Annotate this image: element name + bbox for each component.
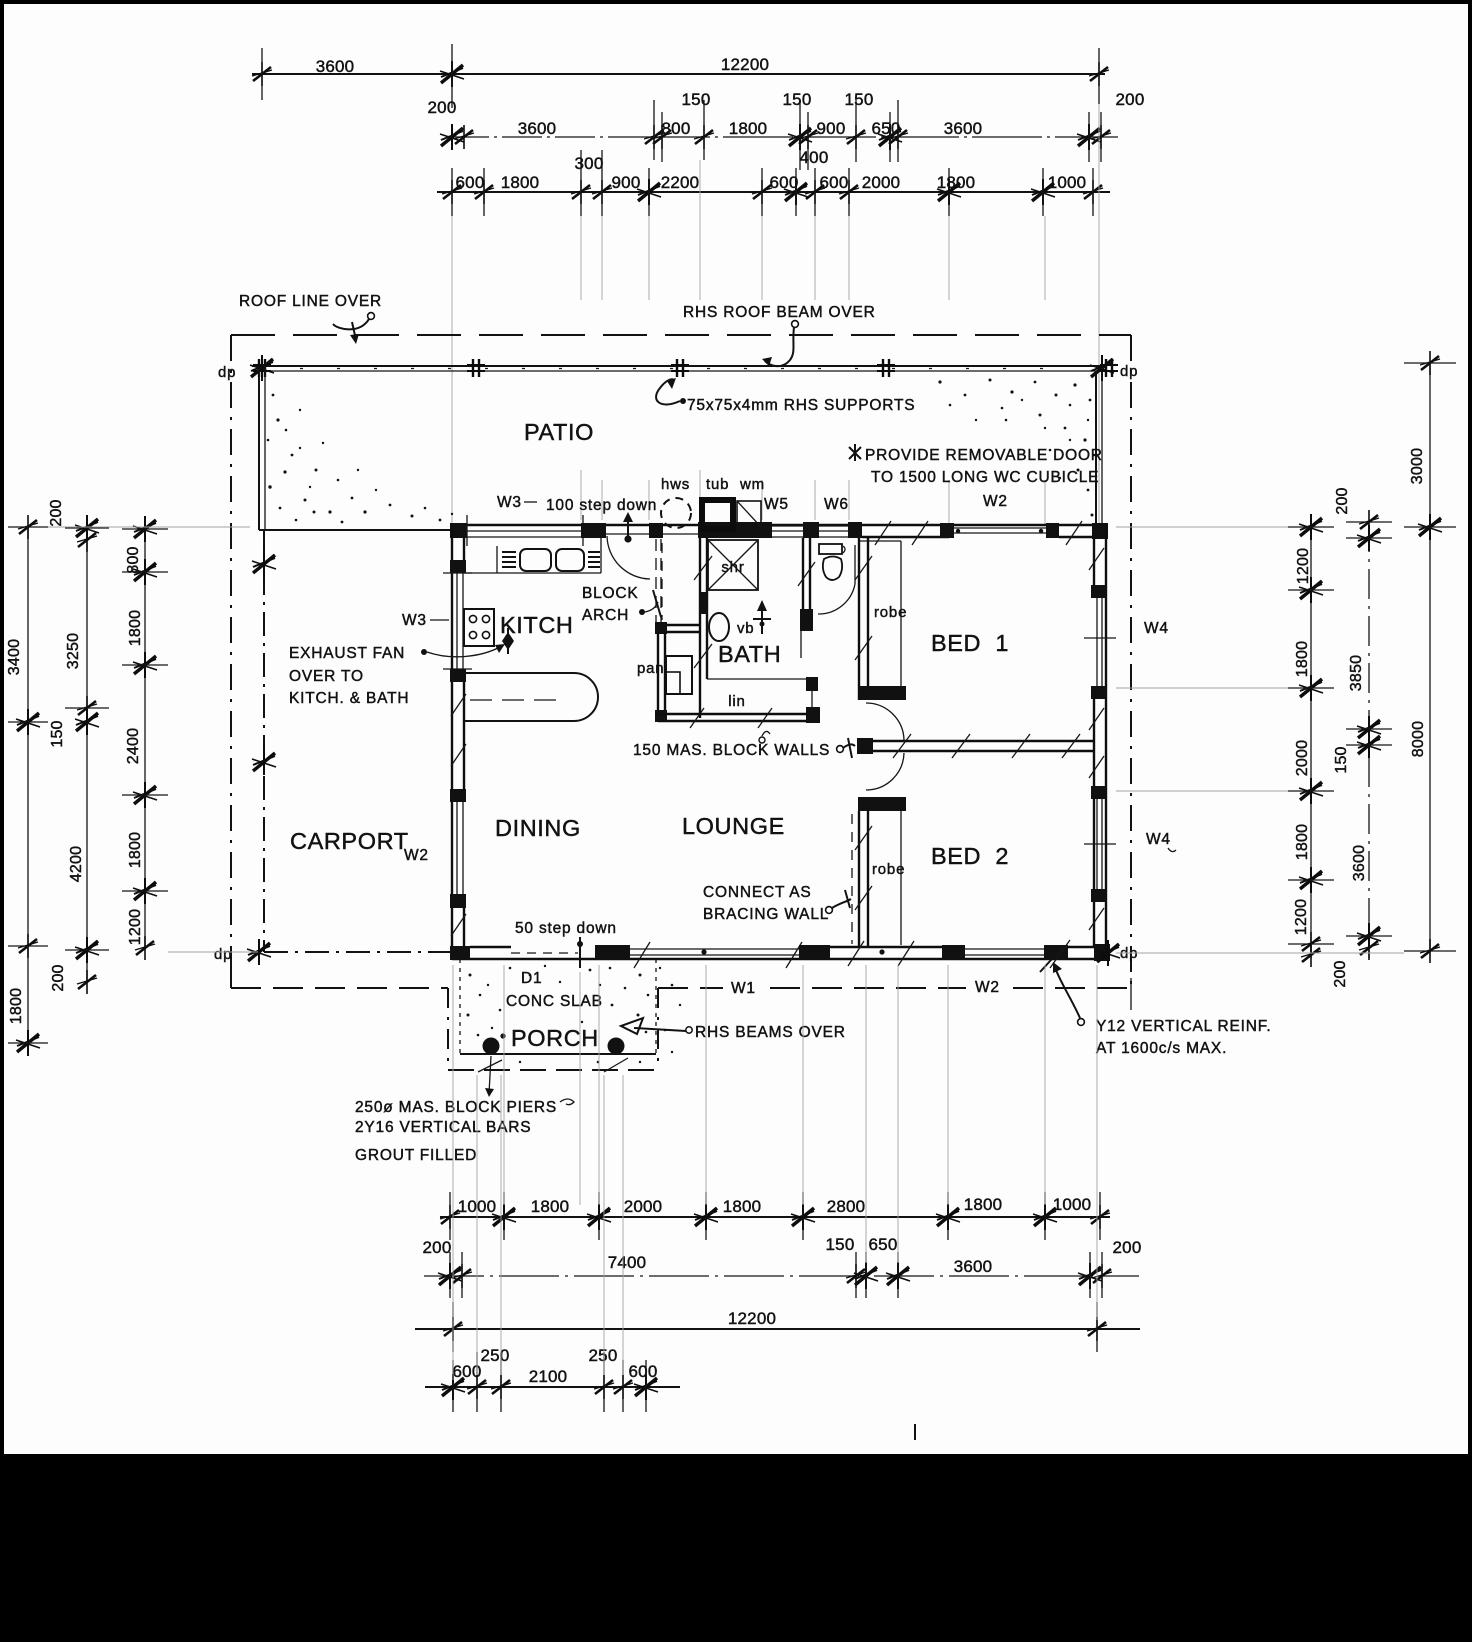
svg-text:600: 600 [629,1362,658,1381]
svg-text:1200: 1200 [127,909,144,945]
svg-text:DINING: DINING [495,815,581,841]
exhaust fan symbol [502,628,514,654]
svg-text:2000: 2000 [1294,740,1311,776]
house west wall [443,525,472,959]
svg-text:150: 150 [1333,746,1350,773]
svg-text:2200: 2200 [661,173,700,192]
svg-text:BED 1: BED 1 [931,630,1009,656]
stove [464,609,494,646]
svg-text:tub: tub [706,476,729,493]
svg-text:800: 800 [125,546,142,573]
svg-text:1200: 1200 [1293,899,1310,935]
kitchen door arc [607,536,650,579]
svg-text:250: 250 [481,1346,510,1365]
svg-text:dp: dp [214,946,232,963]
svg-text:2800: 2800 [827,1197,866,1216]
PROVIDE REMOVABLE DOOR note [849,444,1103,486]
svg-text:ARCH: ARCH [582,607,629,624]
porch slab edges [459,959,461,1054]
svg-text:200: 200 [1334,487,1351,514]
svg-text:W5: W5 [764,496,789,513]
svg-text:3400: 3400 [6,639,23,675]
bed2 door arc [866,753,904,790]
kitchen bench peninsula [464,673,598,721]
removable door dashed [661,543,663,620]
left dim col 3 [144,529,146,948]
PORCH label [500,1033,505,1038]
left dim col 2 [86,528,88,982]
patio west wall [259,366,265,530]
svg-text:1200: 1200 [1295,548,1312,584]
roof line over (dashed outline) [231,335,1131,1070]
bed1 robe wall [855,538,907,700]
svg-text:150: 150 [826,1235,855,1254]
witness lines to plan [451,216,453,524]
svg-text:W4: W4 [1144,620,1169,637]
bed1 door arc [866,703,904,740]
svg-text:W3: W3 [402,612,427,629]
house east wall [1084,371,1116,959]
kitchen door opening [606,533,651,535]
svg-text:wm: wm [739,476,765,493]
svg-text:EXHAUST FAN: EXHAUST FAN [289,645,405,662]
svg-text:robe: robe [874,604,907,621]
laundry opening [663,533,700,535]
left dim col 1 [27,527,29,1043]
svg-text:W2: W2 [975,979,1000,996]
svg-text:3600: 3600 [954,1257,993,1276]
svg-text:CONNECT AS: CONNECT AS [703,884,812,901]
svg-text:7400: 7400 [608,1253,647,1272]
svg-text:BATH: BATH [718,641,781,667]
svg-text:900: 900 [612,173,641,192]
bottom dim row 3 [415,1328,1140,1330]
svg-text:W2: W2 [983,493,1008,510]
svg-text:OVER TO: OVER TO [289,668,364,685]
svg-text:250ø MAS. BLOCK PIERS: 250ø MAS. BLOCK PIERS [355,1099,557,1116]
window W3 top [467,530,583,532]
svg-text:300: 300 [575,154,604,173]
svg-text:3850: 3850 [1348,655,1365,691]
dim row B line [449,136,640,138]
50 step down marker [579,937,581,968]
right dim col 1 [1310,527,1312,958]
bed2 robe / bracing wall [852,797,906,947]
svg-text:ROOF LINE OVER: ROOF LINE OVER [239,293,382,310]
pan [666,656,692,694]
concrete speckles [467,965,682,1063]
svg-text:lin: lin [728,693,745,710]
svg-text:4200: 4200 [68,846,85,882]
svg-text:KITCH. & BATH: KITCH. & BATH [289,690,409,707]
svg-text:1800: 1800 [127,610,144,646]
svg-text:2400: 2400 [125,728,142,764]
shower [708,540,758,590]
svg-text:shr: shr [721,559,744,576]
svg-text:GROUT FILLED: GROUT FILLED [355,1147,477,1164]
svg-text:8000: 8000 [1410,721,1427,757]
svg-text:2000: 2000 [862,173,901,192]
svg-text:CONC SLAB: CONC SLAB [506,993,603,1010]
svg-text:150: 150 [49,720,66,747]
svg-text:200: 200 [1116,90,1145,109]
vb basin [709,613,729,641]
wc room near W6 [798,538,855,658]
100 step down arrow [627,516,629,537]
svg-text:1800: 1800 [531,1197,570,1216]
patio speckles [267,379,1096,524]
svg-text:AT 1600c/s MAX.: AT 1600c/s MAX. [1096,1040,1227,1057]
svg-text:dp: dp [1120,363,1138,380]
svg-text:150 MAS. BLOCK WALLS: 150 MAS. BLOCK WALLS [633,742,830,759]
window W4 upper [1096,598,1098,686]
right dim col 2 [1368,522,1370,958]
svg-text:dp: dp [218,364,236,381]
tub [702,500,733,529]
window W2 bottom [965,948,1044,950]
svg-text:W3: W3 [497,494,522,511]
witness verticals [452,965,454,1380]
wc door [854,545,856,584]
svg-text:12200: 12200 [721,55,769,74]
svg-text:CARPORT: CARPORT [290,828,409,854]
svg-text:vb: vb [737,620,754,637]
bottom dim row 4 [425,1386,680,1388]
svg-text:D1: D1 [521,970,542,987]
svg-text:BED 2: BED 2 [931,843,1009,869]
patio RHS roof beam (double line) [250,355,1118,381]
svg-text:robe: robe [872,861,905,878]
laundry/bath dividing wall [694,538,712,718]
svg-text:1800: 1800 [8,988,25,1024]
svg-text:75x75x4mm RHS SUPPORTS: 75x75x4mm RHS SUPPORTS [687,397,915,414]
svg-text:2000: 2000 [624,1197,663,1216]
svg-text:LOUNGE: LOUNGE [682,813,785,839]
svg-text:BLOCK: BLOCK [582,585,639,602]
right dim col 3 [1429,363,1431,953]
svg-text:600: 600 [770,173,799,192]
svg-text:PATIO: PATIO [524,419,594,445]
svg-text:200: 200 [423,1238,452,1257]
svg-text:W1: W1 [731,980,756,997]
svg-text:BRACING WALL: BRACING WALL [703,906,829,923]
page borders [0,0,1472,4]
svg-text:W4: W4 [1146,831,1171,848]
dim row C line [437,191,1110,193]
bath/lin bottom wall [658,677,820,728]
ceiling fan symbol [753,600,771,634]
window W5 [772,525,803,527]
svg-text:800: 800 [662,119,691,138]
svg-text:200: 200 [428,98,457,117]
lin leader pigtail [762,731,770,736]
toilet 2 [819,544,842,554]
svg-text:12200: 12200 [728,1309,776,1328]
svg-text:hws: hws [661,476,690,493]
svg-text:400: 400 [800,148,829,167]
window W3 left [456,573,458,669]
svg-text:1000: 1000 [1048,173,1087,192]
door D1 opening (dashed) [511,952,578,954]
patio floor edge [259,529,452,531]
carport south edge [264,951,452,953]
pier leader [489,1056,491,1094]
wm [737,501,761,527]
RHS BEAMS OVER [686,1027,692,1033]
svg-text:2100: 2100 [529,1367,568,1386]
block piers [483,1038,500,1055]
hws dashed circle [661,498,691,528]
svg-text:900: 900 [817,119,846,138]
svg-text:dp: dp [1120,945,1138,962]
svg-text:1800: 1800 [937,173,976,192]
svg-text:150: 150 [845,90,874,109]
svg-text:250: 250 [589,1346,618,1365]
house south wall [450,937,1120,968]
stray tick [914,1424,916,1440]
svg-text:650: 650 [869,1235,898,1254]
svg-text:PROVIDE REMOVABLE DOOR: PROVIDE REMOVABLE DOOR [865,447,1103,464]
middle wall bed1/bed2 [857,734,1094,758]
svg-text:3000: 3000 [1409,448,1426,484]
svg-text:1800: 1800 [729,119,768,138]
svg-text:3600: 3600 [316,57,355,76]
kitchen sink bench [464,538,601,573]
svg-text:1800: 1800 [964,1195,1003,1214]
svg-text:1800: 1800 [1294,824,1311,860]
svg-text:50 step down: 50 step down [515,920,617,937]
svg-text:3600: 3600 [1351,845,1368,881]
witness line top [48,526,250,528]
window W2 top [954,527,1046,529]
svg-text:3600: 3600 [944,119,983,138]
svg-text:1800: 1800 [127,832,144,868]
svg-text:3600: 3600 [518,119,557,138]
svg-text:600: 600 [820,173,849,192]
window W6 [819,525,848,527]
bath east wall stub [706,658,708,679]
svg-text:200: 200 [1113,1238,1142,1257]
svg-text:100 step down: 100 step down [546,497,657,514]
svg-text:RHS BEAMS OVER: RHS BEAMS OVER [695,1024,846,1041]
svg-text:3250: 3250 [65,633,82,669]
svg-text:1800: 1800 [1294,641,1311,677]
svg-text:2Y16 VERTICAL BARS: 2Y16 VERTICAL BARS [355,1119,531,1136]
bottom dim row 2 [424,1275,1139,1277]
window W1 [630,948,799,950]
svg-text:TO 1500 LONG WC CUBICLE: TO 1500 LONG WC CUBICLE [871,469,1099,486]
svg-text:150: 150 [783,90,812,109]
dim row A line 12200/3600 [252,73,1105,75]
svg-text:Y12 VERTICAL REINF.: Y12 VERTICAL REINF. [1096,1018,1271,1035]
svg-text:KITCH: KITCH [500,612,574,638]
block arch dashed line [655,539,657,630]
bottom dim row 1 [440,1216,1110,1218]
svg-text:650: 650 [872,119,901,138]
svg-text:200: 200 [48,499,65,526]
svg-text:PORCH: PORCH [511,1025,599,1051]
wc cubicle (pan) [637,543,700,722]
carport west column line [263,530,265,952]
window W2 left [456,802,458,894]
svg-text:W6: W6 [824,496,849,513]
svg-text:200: 200 [1332,960,1349,987]
svg-text:200: 200 [50,964,67,991]
house top wall [450,515,1106,546]
svg-text:1000: 1000 [1053,1195,1092,1214]
svg-text:RHS ROOF BEAM OVER: RHS ROOF BEAM OVER [683,304,876,321]
svg-text:1800: 1800 [723,1197,762,1216]
bed1 top wall [862,536,949,538]
svg-text:600: 600 [456,173,485,192]
svg-text:150: 150 [682,90,711,109]
svg-text:1800: 1800 [501,173,540,192]
witness lines [1116,526,1288,528]
svg-text:pan: pan [637,660,664,677]
window W4 lower [1096,799,1098,889]
